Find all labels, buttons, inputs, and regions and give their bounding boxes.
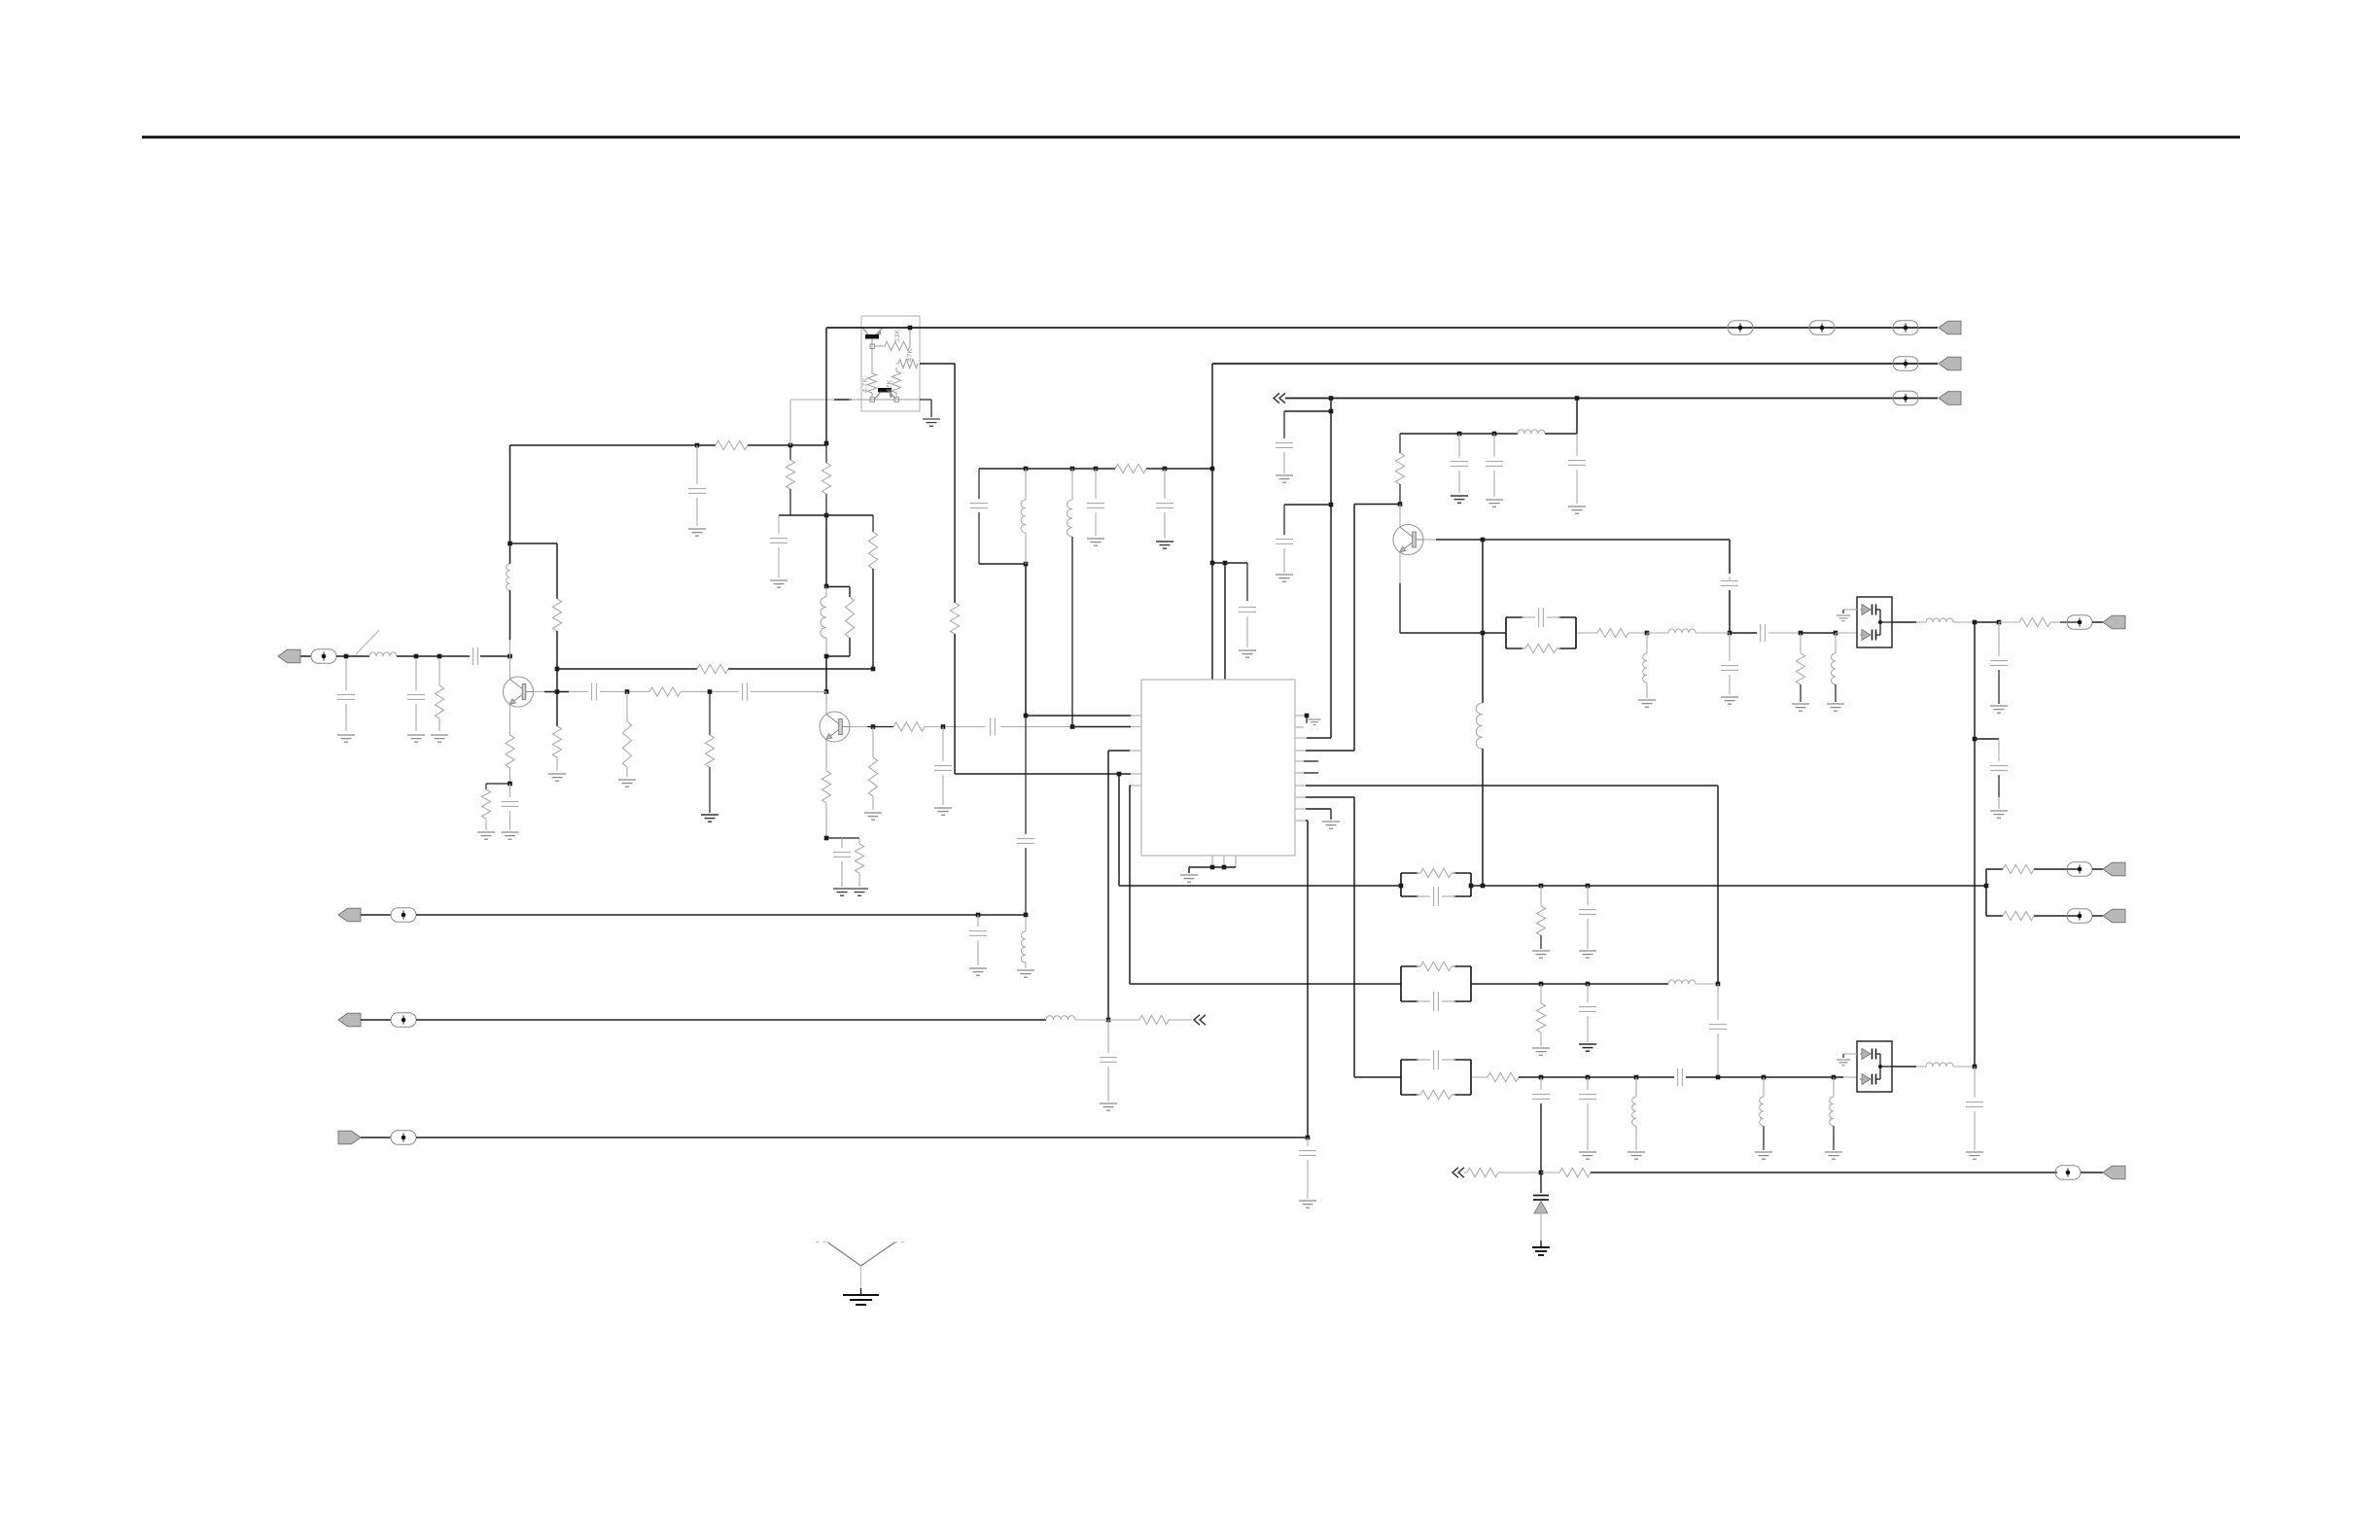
connector J1 (antenna input) bbox=[278, 649, 300, 663]
ground bbox=[1276, 474, 1293, 476]
wire y=423 branch bbox=[1284, 410, 1331, 412]
node AE bbox=[1070, 467, 1075, 472]
wire x=1767 drop bbox=[1717, 786, 1719, 984]
resistor R8 (x=898) bbox=[872, 515, 874, 532]
inductor L12 bbox=[1835, 633, 1837, 653]
wire Q2 emitter bbox=[825, 739, 827, 771]
node AT bbox=[1481, 538, 1486, 542]
node BM bbox=[1634, 1075, 1639, 1080]
ground bbox=[851, 888, 868, 890]
capacitor C26 (series) bbox=[1730, 632, 1757, 634]
node BD bbox=[1539, 884, 1544, 889]
resistor R34 bbox=[1487, 1072, 1519, 1081]
capacitor C3 (coupling) bbox=[472, 647, 474, 665]
wire x=850 column bbox=[825, 328, 827, 443]
wire interstage y=711.5 bbox=[534, 691, 589, 693]
connector J5 bbox=[338, 908, 361, 922]
inductor L14 (series) bbox=[1668, 980, 1696, 984]
capacitor C32 drop to diode node bbox=[1540, 1077, 1542, 1090]
transistor Q2 bbox=[820, 712, 850, 742]
capacitor C7 bbox=[841, 838, 843, 848]
wire x=1345 drop bbox=[1307, 821, 1309, 1137]
U1 pin y=832 to ground bbox=[1295, 808, 1306, 810]
wire Q4 emitter bbox=[871, 339, 873, 374]
wire bbox=[925, 726, 985, 728]
wire y=519 branch bbox=[1284, 504, 1331, 506]
wire y=1108 line bbox=[1471, 1076, 1487, 1078]
node BJ bbox=[1716, 1075, 1721, 1080]
wire y=688 feedback line bbox=[557, 668, 697, 670]
wire bbox=[361, 914, 391, 916]
U1 pin stub y=783 bbox=[1295, 760, 1304, 762]
capacitor C9 bbox=[742, 683, 744, 701]
resistor R9 bbox=[825, 443, 827, 463]
node D (Q1 collector node) bbox=[507, 654, 512, 659]
wire bbox=[486, 783, 510, 785]
node S bbox=[625, 689, 630, 694]
resistor R3 bbox=[481, 789, 490, 819]
wire Q1 collector riser x=524.5 bbox=[509, 445, 511, 564]
ground bbox=[1627, 1151, 1645, 1153]
capacitor C22 bbox=[1576, 434, 1578, 456]
transistor Q1 bbox=[504, 677, 534, 707]
wire x=1393 riser bbox=[1353, 505, 1355, 752]
capacitor C4 bbox=[509, 784, 511, 797]
resistor R26 (Q3 collector) bbox=[1399, 434, 1401, 453]
wire x=1369 riser bbox=[1330, 399, 1332, 739]
node J bbox=[788, 443, 793, 448]
wire bbox=[509, 590, 511, 640]
U1 bottom pins bbox=[1211, 856, 1213, 867]
transistor Q4 (inside U2) bbox=[865, 334, 879, 339]
ground bbox=[548, 773, 566, 775]
wire bbox=[826, 837, 859, 839]
wire to D1 bbox=[1836, 632, 1857, 634]
node AP bbox=[1457, 432, 1462, 437]
resistor R29 bbox=[1999, 621, 2019, 623]
resistor R27 bbox=[1577, 632, 1597, 634]
node X bbox=[1117, 772, 1122, 777]
pad E13 bbox=[2055, 1166, 2081, 1179]
node BB bbox=[1469, 884, 1474, 889]
wire D1 output bbox=[1892, 621, 1916, 623]
wire x=1151 drop to y=911 bbox=[1118, 774, 1120, 886]
node AL bbox=[1329, 503, 1334, 507]
ground bbox=[1299, 1200, 1316, 1202]
capacitor C23 bbox=[1458, 434, 1460, 457]
wire bbox=[825, 656, 827, 692]
wire bbox=[300, 655, 311, 657]
wire Q1 collector bbox=[509, 640, 511, 656]
wire bus y=482 bbox=[979, 468, 1115, 470]
wire y=1012 line bbox=[1471, 983, 1668, 985]
inductor L1 bbox=[369, 652, 397, 656]
ground bbox=[969, 967, 987, 969]
resistor R14 (Q2 base bias) bbox=[872, 727, 874, 758]
inductor L4 bbox=[1025, 469, 1027, 500]
ground bbox=[934, 807, 952, 809]
wire x=1055 column bbox=[1025, 564, 1027, 716]
resistor R1 bbox=[438, 658, 440, 685]
node AV bbox=[1645, 631, 1650, 636]
antenna Y symbol bbox=[827, 1242, 861, 1267]
wire bbox=[825, 803, 827, 838]
node L bbox=[824, 441, 829, 446]
svg-text:13K: 13K bbox=[892, 330, 901, 342]
capacitor C35 bbox=[1974, 1067, 1976, 1098]
capacitor C10 bbox=[942, 727, 944, 762]
ground (D2 top pin) bbox=[1843, 1053, 1857, 1055]
varactor pair D2 bbox=[1857, 1041, 1892, 1092]
test point pad E1 bbox=[311, 649, 336, 663]
wire y=446 rail bbox=[1400, 433, 1518, 435]
node BO bbox=[1832, 1075, 1837, 1080]
wire bbox=[979, 563, 1026, 565]
combo Z4 (C/R parallel) bbox=[1400, 1060, 1402, 1095]
U1 pin y=808 left to x=1162 drop bbox=[1131, 785, 1141, 787]
wire line A to U1 bbox=[1026, 715, 1131, 717]
wire y=911 line bbox=[1471, 885, 1986, 887]
ground bbox=[1755, 1151, 1772, 1153]
ground bbox=[1486, 499, 1503, 501]
transistor Q3 bbox=[1393, 525, 1423, 555]
net stub chevron bbox=[1194, 1015, 1200, 1025]
resistor R32 bbox=[2003, 911, 2034, 920]
node AC bbox=[1024, 714, 1029, 718]
connector J11 bbox=[2103, 1166, 2125, 1179]
node BI bbox=[1716, 982, 1721, 987]
inductor L18 bbox=[1916, 1066, 1926, 1067]
node BN bbox=[1762, 1075, 1767, 1080]
diode D3 (to ground) bbox=[1540, 1172, 1542, 1193]
resistor R19 13K bbox=[874, 345, 885, 347]
ground bbox=[1276, 574, 1293, 576]
wire bbox=[954, 634, 956, 774]
wire bbox=[1975, 621, 1999, 623]
wire bbox=[397, 655, 470, 657]
wire bbox=[600, 691, 649, 693]
inductor L10 bbox=[1646, 633, 1648, 653]
node BC bbox=[1481, 884, 1486, 889]
ground bbox=[477, 831, 495, 833]
resistor R2 (Q1 emitter) bbox=[506, 735, 514, 768]
ground bbox=[1180, 874, 1198, 876]
wire U2 bottom rail bbox=[849, 399, 920, 401]
connector J6 bbox=[338, 1013, 361, 1027]
wire into Q2 bbox=[825, 692, 827, 715]
ground bbox=[1568, 506, 1586, 507]
wire Q3 emitter bbox=[1399, 552, 1401, 633]
capacitor C15 bbox=[1164, 469, 1166, 499]
inductor L11 (series) bbox=[1647, 632, 1668, 634]
node BG bbox=[1539, 982, 1544, 987]
ground bbox=[337, 734, 355, 736]
wire x=573 drop bbox=[556, 543, 558, 599]
resistor R16 (series) bbox=[649, 687, 681, 696]
ground bbox=[833, 888, 851, 890]
wire x=1525 drop bbox=[1482, 540, 1484, 703]
wire Q3 base y=555 bbox=[1423, 539, 1436, 541]
net stub chevron bbox=[1452, 1168, 1458, 1177]
inductor L6 bbox=[1071, 469, 1073, 500]
wire x=2031 column bbox=[1974, 622, 1976, 1067]
wire bbox=[1541, 1076, 1674, 1078]
ground bbox=[1792, 703, 1809, 705]
combo Z1 (R/C parallel, Q3 emitter) bbox=[1505, 617, 1507, 648]
resistor R23 bbox=[950, 603, 959, 634]
ground bbox=[1579, 950, 1596, 952]
capacitor C14 bbox=[1095, 469, 1097, 499]
node AK bbox=[1329, 409, 1334, 414]
node AH bbox=[1210, 467, 1215, 472]
node BK bbox=[1539, 1075, 1544, 1080]
node O (Q2 collector node) bbox=[824, 689, 829, 694]
wire output splitter bbox=[1985, 869, 1987, 916]
ground bbox=[502, 831, 519, 833]
resistor R28 bbox=[1800, 633, 1802, 653]
capacitor C13 bbox=[1025, 716, 1027, 834]
node AY bbox=[1973, 620, 1977, 625]
wire twin feeds to U1 top bbox=[1211, 563, 1213, 680]
ground bbox=[1017, 969, 1034, 971]
node AF bbox=[1094, 467, 1099, 472]
connector J7 bbox=[338, 1131, 361, 1144]
wire net VSF y=374 bbox=[1212, 363, 1906, 365]
wire U2 output y=374 bbox=[920, 363, 955, 365]
connector J10 bbox=[2103, 909, 2125, 923]
pad E6 bbox=[1893, 391, 1918, 404]
capacitor C2 bbox=[415, 658, 417, 690]
pad E2 bbox=[1728, 321, 1753, 334]
wire U2 right ground leg bbox=[920, 399, 931, 401]
svg-text:4.7K: 4.7K bbox=[860, 378, 869, 393]
wire net 5V y=409.5 bbox=[1285, 398, 1906, 400]
resistor R22 47K bbox=[898, 359, 918, 367]
ground bbox=[1087, 538, 1104, 540]
node AX bbox=[1834, 631, 1838, 636]
wire bbox=[751, 691, 826, 693]
wire bbox=[556, 631, 558, 726]
pad E10 bbox=[2067, 615, 2092, 629]
wire x=1140 drop bbox=[1107, 751, 1109, 1020]
title rule bbox=[142, 136, 2240, 139]
capacitor C12 bbox=[970, 503, 988, 505]
pad E11 bbox=[2067, 862, 2092, 876]
node AN bbox=[976, 913, 981, 918]
node E bbox=[507, 782, 512, 787]
capacitor C24 bbox=[1493, 434, 1495, 457]
resistor R15 bbox=[626, 692, 628, 722]
pad E4 bbox=[1893, 321, 1918, 334]
node Z bbox=[1575, 396, 1580, 401]
ground bbox=[688, 528, 706, 530]
resistor R5 (Q1 base bias) bbox=[552, 726, 561, 757]
inductor L16 bbox=[1763, 1077, 1765, 1097]
node K bbox=[824, 513, 829, 518]
ground bbox=[1990, 705, 2008, 707]
node Q bbox=[871, 667, 876, 672]
node AD bbox=[1024, 913, 1029, 918]
wire to U1 pin bbox=[955, 773, 1119, 775]
inductor L17 bbox=[1833, 1077, 1835, 1097]
ground bbox=[438, 718, 440, 731]
connector J9 bbox=[2103, 862, 2125, 876]
wire x=1247 column bbox=[1211, 364, 1213, 563]
ground bbox=[923, 418, 940, 420]
ground bbox=[1532, 950, 1550, 952]
capacitor C28 bbox=[1998, 739, 2000, 761]
resistor R25 bbox=[1108, 1019, 1139, 1021]
node AY2 bbox=[1997, 620, 2002, 625]
resistor R6 bbox=[716, 440, 748, 449]
wire bbox=[681, 691, 739, 693]
capacitor C36 bbox=[1729, 633, 1731, 661]
inductor L3 (parallel) bbox=[821, 597, 826, 638]
ground bbox=[1579, 1151, 1596, 1153]
node P bbox=[824, 836, 829, 841]
wire bbox=[556, 757, 558, 771]
capacitor C17 bbox=[1283, 411, 1285, 438]
resistor R30 bbox=[1540, 886, 1542, 906]
wire to bias network U2 bbox=[789, 400, 791, 445]
wire x=1779 cap leg bbox=[1729, 540, 1731, 574]
wire bbox=[361, 1137, 391, 1138]
pad E7 bbox=[391, 908, 416, 922]
resistor R13 (feedback) bbox=[697, 664, 728, 673]
inductor L5 bbox=[1025, 917, 1027, 931]
node AW bbox=[1799, 631, 1803, 636]
wire net RXIN y=941 bbox=[416, 914, 1026, 916]
ground bbox=[1721, 696, 1738, 698]
ground bbox=[1322, 821, 1340, 822]
ground bbox=[864, 812, 882, 814]
wire x=1162 drop to y=1012 bbox=[1129, 786, 1131, 984]
resistor R11 (Q2 emitter) bbox=[822, 771, 830, 803]
ground bbox=[1825, 1151, 1842, 1153]
wire feed to x=573 bbox=[510, 542, 558, 544]
resistor R4 bbox=[552, 599, 561, 631]
wire net TXEN y=1170 bbox=[416, 1137, 1308, 1138]
capacitor C20 bbox=[977, 915, 979, 927]
node BE bbox=[1586, 884, 1591, 889]
node F bbox=[507, 542, 512, 546]
node base2 bbox=[870, 344, 875, 349]
transistor Q5 (inside U2) bbox=[878, 388, 892, 393]
node BP bbox=[1973, 1065, 1977, 1069]
combo Z2 (R/C parallel) bbox=[1400, 873, 1402, 896]
capacitor C31 bbox=[1717, 984, 1719, 1020]
node AR bbox=[1398, 502, 1403, 507]
varactor pair D1 bbox=[1857, 597, 1892, 647]
resistor R36 bbox=[1541, 1172, 1559, 1173]
node BH bbox=[1586, 982, 1591, 987]
capacitor C33 bbox=[1587, 1077, 1589, 1090]
resistor R33 bbox=[1540, 984, 1542, 1003]
ground bbox=[1100, 1102, 1117, 1104]
ground bbox=[843, 1294, 879, 1296]
node B bbox=[414, 654, 419, 659]
net stub chevron bbox=[1274, 393, 1279, 402]
capacitor C25 bbox=[1721, 580, 1738, 582]
wire Q2 base line y=747.5 bbox=[850, 726, 873, 728]
wire bbox=[509, 768, 511, 784]
wire D2 output bbox=[1892, 1066, 1916, 1067]
node BF bbox=[1984, 884, 1989, 889]
node T bbox=[708, 689, 713, 694]
capacitor C19 bbox=[1107, 1020, 1109, 1053]
resistor R31 bbox=[2003, 864, 2034, 873]
pad E9 bbox=[391, 1131, 416, 1144]
node N bbox=[824, 654, 829, 659]
ground bbox=[407, 734, 425, 736]
node H (Q1 base node) bbox=[555, 689, 560, 694]
node I bbox=[695, 443, 700, 448]
inductor L8 bbox=[1518, 430, 1545, 434]
U1 pin y=772 left to x=1140 drop bbox=[1130, 750, 1141, 752]
node AJ bbox=[1223, 561, 1228, 566]
ground bbox=[618, 779, 636, 781]
U1 pin y=772 to x=1393 riser bbox=[1295, 750, 1306, 752]
capacitor C34 (series) bbox=[1677, 1068, 1679, 1086]
capacitor C8 bbox=[591, 683, 593, 701]
pad E12 bbox=[2067, 909, 2092, 923]
U1 pin y=820 to x=1393 drop bbox=[1295, 796, 1306, 798]
capacitor C27 bbox=[1998, 622, 2000, 656]
ground (D1 top pin) bbox=[1843, 609, 1857, 611]
resistor R24 bbox=[1115, 464, 1146, 472]
svg-text:47K: 47K bbox=[885, 380, 893, 393]
node AZ bbox=[1973, 737, 1977, 742]
node W (U2 output) bbox=[908, 326, 913, 331]
node M bbox=[824, 584, 829, 589]
resistor R20 4.7K bbox=[867, 373, 876, 393]
node C bbox=[437, 654, 442, 659]
pad E3 bbox=[1809, 321, 1835, 334]
ground bbox=[1827, 703, 1844, 705]
wire x=1393 drop bbox=[1353, 797, 1355, 1077]
connector J8 bbox=[2103, 615, 2125, 629]
resistor R21 47K bbox=[892, 371, 900, 393]
wire net VCONT y=337 bbox=[826, 327, 1740, 329]
wire bbox=[2092, 621, 2103, 623]
resistor R12 bbox=[858, 838, 860, 844]
resistor R18 bbox=[893, 722, 925, 731]
capacitor C30 bbox=[1587, 984, 1589, 1002]
bias network U2 box bbox=[861, 316, 920, 411]
node R (Q2 base) bbox=[871, 724, 876, 729]
inductor L15 bbox=[1635, 1077, 1637, 1097]
node V bbox=[1070, 724, 1075, 729]
resistor R7 bbox=[789, 445, 791, 460]
ground bbox=[770, 579, 787, 581]
node A bbox=[344, 654, 349, 659]
node AQ bbox=[1492, 432, 1497, 437]
node AI bbox=[1210, 561, 1215, 566]
connector J3 bbox=[1939, 357, 1961, 370]
ground bbox=[1638, 699, 1656, 701]
capacitor C21 bbox=[1307, 1137, 1309, 1146]
capacitor C11 (series) bbox=[990, 718, 992, 736]
pad E8 bbox=[391, 1013, 416, 1027]
wire line B to U1 bbox=[1000, 726, 1072, 728]
node AU bbox=[1728, 631, 1732, 636]
ground bbox=[1451, 495, 1468, 497]
U1 pin y=759 to x=1369 riser bbox=[1295, 737, 1307, 739]
U1 pin stub y=748 bbox=[1295, 726, 1304, 728]
capacitor C29 bbox=[1587, 886, 1589, 905]
ground bbox=[1239, 649, 1256, 651]
wire x=1622 from 5V bbox=[1576, 399, 1578, 435]
